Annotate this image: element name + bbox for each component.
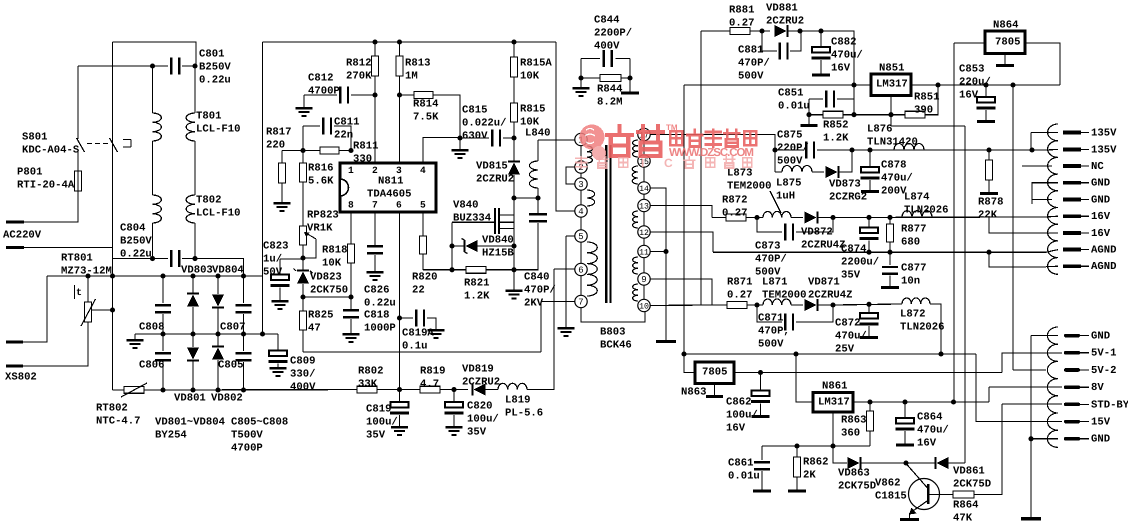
node rail C853 [983,82,988,87]
svg-text:LM317: LM317 [876,78,908,90]
wire pin7 drop [540,302,542,353]
label N863 [681,386,706,398]
svg-text:R815: R815 [520,103,545,115]
op-amp U N811 TDA4605 [340,163,436,212]
ground C818 [343,333,360,343]
wire VD840 left lead [452,245,465,247]
resistor R818 [348,244,355,263]
svg-text:R878: R878 [978,196,1003,208]
ground C809 [270,367,287,377]
terminal C862 gnd [752,415,770,418]
wire AGND tap link [1046,250,1058,253]
wire pin7 link [541,301,575,303]
svg-text:360: 360 [841,428,860,440]
wire N864 gnd stub [1004,54,1006,65]
node R818 bottom [348,294,353,299]
wire pin2 lead [374,95,376,163]
wire C819A right [427,318,436,329]
node C871 left [754,302,759,307]
svg-text:2CK75D: 2CK75D [953,479,991,491]
svg-text:8.2M: 8.2M [597,97,622,109]
label VD871 [808,276,853,301]
svg-text:C819: C819 [366,403,391,415]
label C878 [881,159,913,197]
wire L875-VD873 [812,171,824,173]
svg-text:C864: C864 [917,411,943,423]
wire adj rail [854,114,905,116]
svg-text:R812: R812 [346,57,371,69]
wire 135V rail [852,149,1046,151]
svg-text:0.022u/: 0.022u/ [462,118,507,130]
capacitor C875 [805,142,815,159]
node bus R813 [397,39,402,44]
wire R863 bot lead [869,431,871,446]
svg-text:N811: N811 [378,175,403,187]
node 135V C878 [867,147,872,152]
wire VD815 top lead [513,138,515,161]
svg-text:C812: C812 [308,72,333,84]
svg-text:C844: C844 [594,14,620,26]
wire VD863 feed [833,446,847,463]
wire C873 right leg [796,218,833,233]
label C805 [218,359,243,371]
terminal tap 5V-2 y370 [1064,368,1080,372]
diode VD861 [934,457,948,469]
label L871 [762,276,807,301]
wire C819A left lead [400,317,414,319]
wire R864 right [974,404,1002,495]
regulator N864 7805 [985,31,1025,54]
watermark weiku characters [607,126,663,156]
terminal tap GND y199 [1063,198,1081,202]
wire pin5 lead [422,212,424,236]
winding B803 5-7 [587,242,597,296]
svg-text:AGND: AGND [1091,245,1116,257]
wire C826 gnd stub [374,255,376,271]
svg-text:22K: 22K [978,210,998,222]
svg-text:C882: C882 [831,36,856,48]
wire bus drop pin4 [556,42,575,211]
svg-text:C862: C862 [726,396,751,408]
wire C882 lead [820,31,822,47]
label C862 [726,396,758,434]
node rail VD803 [190,273,195,278]
label VD819 [462,363,500,388]
label R821 [464,277,490,302]
svg-text:470P/: 470P/ [738,58,770,70]
svg-text:L819: L819 [505,394,530,406]
wire C811 left drop [302,126,304,151]
svg-text:KDC-A04-S: KDC-A04-S [22,145,80,157]
wire pin11 stub [650,251,666,253]
node adj left [806,112,811,117]
wire T filter right bot [194,223,196,259]
label C819A [402,327,434,352]
label C805-C808 [231,416,288,454]
wire VD863-collector [861,462,906,464]
wire pin9 lead [650,279,712,305]
svg-text:TDA4605: TDA4605 [367,188,412,200]
resistor R844 [600,75,621,82]
wire R814 left lead [400,94,415,96]
svg-text:XS802: XS802 [5,371,37,383]
svg-text:R813: R813 [405,57,430,69]
svg-text:R818: R818 [322,244,347,256]
inductor T802 right winding [186,195,195,223]
inductor L819 [498,383,527,389]
wire 16V tap2 link2 [1046,232,1058,234]
label R863 [841,414,866,439]
svg-text:RTI-20-4A: RTI-20-4A [17,180,75,192]
wire C801 node line [78,65,168,67]
fuse P801 [75,171,82,191]
wire R825 bottom [302,330,304,352]
svg-text:10K: 10K [322,258,342,270]
wire pin12 lead [650,232,713,252]
wire C861 stub [761,471,763,490]
label R862 [803,456,828,481]
terminal AC220V pin1 [6,221,24,224]
svg-text:1u/: 1u/ [263,254,282,266]
node R862 top [794,443,799,448]
wire VD873 out [839,150,852,172]
wire drain lead [513,198,515,246]
wire C875 right lead [817,149,852,151]
svg-text:RT802: RT802 [96,402,128,414]
node pin2ctl left [300,148,305,153]
label C874 [841,243,879,281]
node rail C807 [241,273,246,278]
wire pin5 stub [566,235,575,237]
svg-text:L840: L840 [525,127,550,139]
svg-text:LCL-F10: LCL-F10 [196,124,241,136]
pin 11 B803 [638,245,650,257]
wire GND chain [1030,336,1032,517]
transformer B803 core [605,145,611,303]
node C873 left [754,215,759,220]
svg-text:VD801: VD801 [174,392,206,404]
label L840 [525,127,550,139]
wire C851 right [837,98,854,100]
node dist L872 [938,351,943,356]
wire VD803 bot [192,307,194,334]
svg-text:C805~C808: C805~C808 [231,416,288,428]
wire C811 left [303,125,320,127]
wire rail R819-VD819 [440,389,468,391]
wire C840 bot lead [514,223,538,270]
wire N851 adj stub [890,96,892,127]
svg-text:L872: L872 [900,308,925,320]
wire GND tap2 link [1031,438,1058,440]
label N864 [993,19,1019,31]
wire hot gnd rail [303,351,541,353]
node C804 left [150,256,155,261]
terminal tap 8V y387 [1064,385,1080,389]
inductor L872 [902,298,930,304]
inductor L871 [763,299,791,305]
node VD840 right [511,243,516,248]
wire VD823 top [302,258,304,270]
wire L840 bot [537,188,539,198]
node N864 feed [951,399,956,404]
wire C823 link [280,258,303,259]
svg-text:VD802: VD802 [211,392,243,404]
wire L873-VD872 [791,217,803,219]
label C818 [364,309,396,334]
wire C881 left [762,31,777,51]
svg-text:V862: V862 [875,477,900,489]
svg-text:R819: R819 [420,365,445,377]
terminal C882 gnd [812,74,830,77]
node C862 [758,370,763,375]
wire C819 gnd stub [399,415,401,426]
svg-text:47: 47 [308,323,321,335]
svg-text:7805: 7805 [995,36,1020,48]
wire mid gnd stub [134,334,136,339]
wire AGND rail [713,251,1046,253]
wire C878 stub [869,180,871,190]
resistor R821 [466,266,486,273]
svg-text:C877: C877 [901,262,926,274]
svg-text:LCL-F10: LCL-F10 [196,208,241,220]
label N851 [879,62,904,74]
svg-text:220P/: 220P/ [777,143,809,155]
capacitor C871 [784,314,794,331]
pin 6 B803 [575,263,587,275]
resistor R812 [372,56,379,76]
svg-text:400V: 400V [290,382,316,394]
inductor L873 [763,211,791,217]
svg-text:2CZRG2: 2CZRG2 [829,192,867,204]
winding B803 17-15 [633,140,638,157]
wire T filter left top [152,66,154,113]
label VD872 [801,226,846,251]
node VD840 left [449,243,454,248]
wire C819 top lead [399,390,401,402]
wire R844 bar stub [629,78,631,92]
label VD840 [482,234,514,259]
label AC220V [3,229,42,241]
svg-text:12: 12 [639,229,649,238]
wire R872 left lead [712,217,726,219]
node C882 top [818,28,823,33]
label L876 [867,123,918,148]
svg-text:TLN31420: TLN31420 [867,137,918,149]
capacitor C819 [390,402,409,415]
wire C853 stub [985,110,987,120]
terminal tap GND y438 [1064,437,1080,441]
thermistor RT802 [121,383,147,397]
node pot bottom [300,255,305,260]
terminal C877 gnd [881,286,899,289]
resistor R820 [420,236,427,254]
label VD861 [953,465,991,490]
wire R844 left lead [581,77,600,79]
resistor R877 [887,224,894,242]
wire pin6xfmr stub [554,268,575,270]
connector output coil 2 [1047,327,1058,447]
svg-text:10K: 10K [520,71,540,83]
resistor R872 [726,214,746,221]
svg-text:7.5K: 7.5K [413,112,439,124]
wire AGND tap2 link [989,252,1046,267]
node 15V C872 [866,302,871,307]
node pin2 [372,92,377,97]
wire C840 top lead [537,198,539,213]
node mid right [260,331,265,336]
svg-text:N851: N851 [879,62,904,74]
wire base lead [930,494,953,496]
label B803 [600,326,632,351]
terminal AC220V pin2 [6,246,24,249]
svg-text:2CK75D: 2CK75D [838,481,876,493]
pin 12 B803 [638,226,650,238]
terminal XS802 pin1 [6,341,23,344]
svg-text:16V: 16V [831,63,851,75]
ground C823 [272,300,289,310]
svg-text:4: 4 [578,207,583,217]
label C853 [959,63,991,101]
capacitor C826 [367,245,383,254]
svg-text:GND: GND [1091,434,1110,446]
svg-text:L871: L871 [762,276,787,288]
resistor R817 [279,163,286,183]
svg-text:470P/: 470P/ [524,285,556,297]
wire rail R802-R819 [377,389,420,391]
wire R878 top lead [988,150,990,160]
label R818 [322,244,347,269]
svg-text:R851: R851 [914,91,939,103]
wire R817 top [281,151,283,164]
svg-text:C823: C823 [263,240,288,252]
svg-text:16V: 16V [1091,211,1111,223]
svg-text:6: 6 [578,266,583,276]
wire 15V rail [833,304,902,305]
svg-text:C861: C861 [728,457,753,469]
node drain [511,195,516,200]
wire RT801 top [87,276,89,302]
wire T filter left bot [152,223,154,259]
wire 16V tap2 drop [989,217,1046,233]
svg-text:C851: C851 [778,87,803,99]
node C875 left [772,147,777,152]
terminal tap 15V y421 [1064,420,1080,424]
wire R881 left lead [701,30,730,32]
svg-text:R871: R871 [727,276,752,288]
pin 13 B803 [638,199,650,211]
inductor T802 left winding [153,195,162,223]
wire VD871 out [818,304,833,306]
capacitor C807 [236,304,252,313]
ground C820 [446,426,463,436]
node rail 5V2 [1010,82,1015,87]
wire XS802 pin2 [23,322,88,366]
node R844 left [578,75,583,80]
capacitor C881 [778,43,788,60]
terminal C853 gnd [977,120,995,123]
ground R844 [573,87,590,97]
wire pin4 lead [423,138,460,164]
svg-text:330/: 330/ [290,369,315,381]
node mid VD804 [215,331,220,336]
wire 5V2 long drop [1012,85,1014,370]
label VD803 [181,264,213,276]
wire C806 bot lead [162,362,164,390]
wire R815A top lead [513,42,515,57]
svg-text:100u/: 100u/ [467,414,499,426]
wire C818 gnd stub [350,319,352,333]
svg-text:5V-2: 5V-2 [1091,365,1116,377]
label C844 [594,14,632,52]
wire N864 in drop [953,43,955,402]
svg-text:R802: R802 [358,365,383,377]
svg-text:NTC-4.7: NTC-4.7 [96,416,141,428]
svg-text:2CZRU2: 2CZRU2 [476,174,514,186]
wire pin14 stub [650,188,666,340]
node VD881 a [759,28,764,33]
terminal XS802 pin2 [6,365,23,368]
wire bridge mid rail [135,333,278,335]
svg-text:VD823: VD823 [310,271,342,283]
svg-text:C804: C804 [120,222,146,234]
svg-text:T801: T801 [196,110,221,122]
label T801 [196,110,241,135]
svg-text:15V: 15V [1091,417,1111,429]
svg-text:C881: C881 [738,44,763,56]
wire XS802 pin1 [23,276,47,342]
resistor R863 [867,411,874,431]
node C819 top [397,387,402,392]
label C808 [139,321,164,333]
svg-text:T802: T802 [196,194,221,206]
label C861 [728,457,760,482]
svg-text:9: 9 [641,275,646,285]
node pin1 net [348,148,353,153]
wire L840 top [537,140,539,161]
wire bridge top rail [47,275,263,277]
winding B803 11-9 [633,257,638,274]
label XS802 [5,371,37,383]
resistor R878 [986,160,993,180]
wire R815A-R815 [513,77,515,103]
wire C804 right [182,259,244,276]
wire N861 adj stub [832,412,834,446]
capacitor C873 [784,224,794,241]
diode VD863 [848,457,862,469]
svg-text:L875: L875 [776,177,801,189]
node source gnd [511,267,516,272]
label N811 pins [348,165,426,211]
svg-text:0.22u: 0.22u [199,75,231,87]
wire gate lead [452,221,494,223]
wire C864 lead [904,402,906,418]
node pin11 [663,249,668,254]
node mid C808 [160,331,165,336]
label TDA4605 [367,188,412,200]
svg-text:R815A: R815A [520,57,552,69]
capacitor C809 [269,351,288,364]
inductor L875 [782,166,812,172]
label LM317 N851 [876,78,908,90]
wire VD815-L840 link [514,197,538,199]
wire 135V bracket [1030,133,1032,151]
svg-text:VR1K: VR1K [307,223,333,235]
wire B+ drop [262,42,264,334]
svg-text:N864: N864 [993,19,1019,31]
svg-text:I: I [641,156,644,170]
svg-text:R863: R863 [841,414,866,426]
label T802 [196,194,241,219]
